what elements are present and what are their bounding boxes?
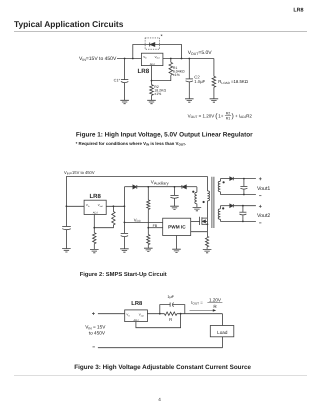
resistor R2 — [151, 81, 153, 85]
junction bypass left — [132, 58, 134, 60]
wire ADJ drop fig2 — [93, 215, 95, 228]
svg-text:R: R — [169, 317, 172, 322]
svg-text:R2: R2 — [226, 112, 231, 116]
svg-text:LR8: LR8 — [131, 300, 143, 307]
svg-text:PWM IC: PWM IC — [168, 225, 186, 230]
diode rectifier output 1 — [230, 177, 233, 180]
junction Vcc tap — [124, 222, 126, 224]
wire top rail fig2 — [66, 175, 207, 177]
svg-text:Vout: Vout — [139, 313, 144, 318]
junction cap left — [159, 313, 161, 315]
ground below PWM IC — [172, 249, 181, 252]
wire secondary 1 top — [220, 178, 229, 180]
capacitor riser bypass — [121, 232, 128, 234]
svg-text:+ IADJR2: + IADJR2 — [235, 113, 252, 119]
wire load bottom — [222, 337, 224, 348]
svg-text:VOUT = 1.20V: VOUT = 1.20V — [188, 113, 215, 119]
regulator U3 LR8 box — [125, 310, 148, 322]
ground below C2 — [185, 99, 194, 102]
junction ADJ node — [151, 80, 153, 82]
transformer T1 core — [211, 177, 213, 228]
load box — [210, 326, 234, 337]
resistor FB lower — [147, 235, 150, 245]
wire output rail — [163, 58, 214, 60]
svg-text:*: * — [161, 34, 164, 40]
ground below R2 — [147, 100, 156, 103]
wire secondary 1 bottom — [220, 194, 256, 196]
terminal minus input — [93, 346, 95, 348]
svg-text:Vout2: Vout2 — [257, 213, 270, 219]
phase dot secondary 1 — [223, 181, 225, 183]
wire return — [98, 347, 223, 349]
diode rectifier output 2 — [230, 204, 233, 207]
svg-text:ADJ: ADJ — [134, 319, 140, 322]
svg-text:): ) — [232, 113, 234, 120]
svg-text:IOUT =: IOUT = — [191, 300, 203, 306]
svg-text:LR8: LR8 — [90, 193, 102, 200]
dashed box optional diode — [145, 38, 160, 49]
svg-text:Vin: Vin — [126, 313, 130, 318]
junction output 1 cap bottom — [243, 194, 245, 196]
regulator U2 LR8 box — [84, 200, 106, 214]
phase dot primary — [203, 201, 205, 203]
junction FB node — [147, 227, 149, 229]
terminal minus output 2 — [259, 222, 261, 224]
svg-text:LR8: LR8 — [138, 68, 150, 75]
svg-text:ADJ: ADJ — [93, 212, 99, 215]
capacitor output 1 — [243, 179, 245, 187]
svg-text:VIN=15V to 450V: VIN=15V to 450V — [64, 170, 95, 176]
wire output — [147, 313, 164, 315]
wire drain-source vertical — [206, 201, 208, 236]
resistor FB upper — [147, 187, 149, 200]
wire input — [98, 313, 125, 315]
svg-text:VAuxiliary: VAuxiliary — [151, 179, 169, 185]
ground below C1 — [120, 100, 129, 103]
svg-text:Figure 2: SMPS Start-Up Circui: Figure 2: SMPS Start-Up Circuit — [80, 271, 167, 278]
junction C1 — [124, 58, 126, 60]
svg-text:Figure 3: High Voltage Adjusta: Figure 3: High Voltage Adjustable Consta… — [74, 364, 251, 371]
svg-text:4: 4 — [158, 397, 161, 402]
capacitor output 2 — [242, 206, 244, 212]
svg-text:R: R — [213, 304, 217, 309]
wire ADJ drop — [151, 66, 153, 81]
transformer primary winding — [206, 176, 208, 191]
wire Vaux mid — [137, 186, 182, 188]
svg-text:* Required for conditions wher: * Required for conditions where VIN is l… — [76, 141, 187, 147]
svg-text:Vin: Vin — [86, 203, 90, 208]
terminal plus input — [92, 312, 95, 315]
junction C2 — [188, 58, 190, 60]
wire ADJ to R1 bottom — [152, 75, 171, 80]
ground below sense resistor — [203, 249, 212, 252]
resistor R2 fig2 — [93, 228, 95, 233]
svg-text:VIN=15V to 450V: VIN=15V to 450V — [79, 56, 117, 62]
wire current sense to PWM — [191, 231, 208, 233]
transformer secondary 1 winding — [219, 179, 221, 182]
capacitor C2 — [188, 59, 190, 80]
svg-text:Vin: Vin — [143, 55, 147, 60]
phase dot secondary 2 — [222, 207, 224, 209]
diode startup feed — [133, 185, 137, 189]
wire diode bypass loop — [133, 45, 182, 59]
svg-text:Vout: Vout — [98, 203, 103, 208]
capacitor C1 — [124, 59, 126, 80]
junction Vaux cap — [174, 186, 176, 188]
junction output 2 cap bottom — [242, 221, 244, 223]
wire output right — [177, 313, 223, 315]
wire riser Vout to Vaux/Vcc — [123, 187, 125, 233]
svg-text:1μF: 1μF — [167, 295, 174, 299]
header rule — [14, 30, 307, 32]
capacitor Vaux — [174, 187, 176, 195]
svg-text:VOUT=5.0V: VOUT=5.0V — [188, 50, 213, 56]
diode aux rectifier — [181, 185, 183, 189]
resistor R — [164, 312, 177, 315]
junction bypass right — [181, 58, 183, 60]
footer rule — [14, 375, 307, 377]
svg-text:C1*: C1* — [114, 78, 121, 82]
controller PWM IC box — [163, 218, 191, 235]
terminal plus output 1 — [259, 177, 262, 180]
svg-text:ADJ: ADJ — [150, 63, 156, 66]
transistor Q1 MOSFET — [199, 217, 201, 225]
wire Vcc line — [124, 221, 162, 223]
wire input rail — [117, 58, 141, 60]
arrow current direction — [190, 309, 214, 311]
resistor sense — [206, 236, 209, 247]
svg-text:VIN = 15V: VIN = 15V — [85, 325, 106, 331]
junction ADJ node fig2 — [93, 227, 95, 229]
ground below FB divider — [144, 248, 153, 251]
svg-text:1.0μF: 1.0μF — [194, 79, 205, 84]
ground below input cap — [62, 249, 71, 252]
svg-text:FB: FB — [153, 224, 158, 228]
svg-text:Load: Load — [217, 330, 228, 335]
diode D1 (protection) — [150, 43, 155, 47]
transformer secondary 2 winding — [219, 206, 221, 209]
wire PWM ground pin — [176, 236, 178, 250]
resistor R1 fig2 — [112, 206, 114, 211]
phase dot auxiliary — [192, 191, 194, 193]
svg-text:±1%: ±1% — [154, 92, 161, 96]
ground below aux winding — [193, 207, 202, 210]
junction source node — [207, 223, 209, 225]
junction riser node — [124, 205, 126, 207]
junction R1 top — [170, 58, 172, 60]
svg-text:Vout1: Vout1 — [257, 186, 270, 192]
ground below Vaux cap — [170, 206, 179, 209]
junction ADJ return — [180, 313, 182, 315]
ground below R2 fig2 — [90, 249, 99, 252]
wire secondary 2 top — [220, 205, 229, 207]
svg-text:LR8: LR8 — [293, 7, 303, 13]
junction output 1 cap top — [243, 178, 245, 180]
junction R1 top fig2 — [113, 205, 115, 207]
wire to LR8 Vin — [66, 205, 84, 207]
junction output 2 cap top — [242, 205, 244, 207]
svg-text:Vout: Vout — [155, 55, 160, 60]
junction input node — [66, 205, 68, 207]
wire secondary 2 bottom — [220, 220, 256, 222]
svg-text:RLOAD =18.5KΩ: RLOAD =18.5KΩ — [218, 79, 248, 85]
svg-text:Typical Application Circuits: Typical Application Circuits — [14, 19, 124, 29]
terminal plus output 2 — [259, 205, 262, 208]
ground below RLOAD — [210, 99, 219, 102]
regulator U1 LR8 box — [141, 53, 163, 65]
wire Vaux right — [186, 186, 197, 188]
svg-text:±1%: ±1% — [173, 73, 180, 77]
wire FB to PWM — [148, 227, 162, 229]
wire ADJ loop — [136, 314, 181, 328]
resistor R1 — [170, 59, 172, 63]
wire to load — [222, 314, 224, 326]
wire LR8 Vout — [106, 205, 124, 207]
junction FB divider top — [147, 186, 149, 188]
ground below riser cap — [120, 249, 129, 252]
capacitor 1uF branch — [160, 305, 170, 314]
resistor RLOAD — [213, 59, 215, 77]
capacitor input C — [62, 226, 71, 228]
wire left drop — [65, 176, 67, 226]
wire gate drive — [191, 220, 200, 222]
svg-text:1.20V: 1.20V — [209, 297, 222, 302]
svg-text:1+: 1+ — [218, 113, 224, 118]
svg-text:Figure 1: High Input Voltage,: Figure 1: High Input Voltage, 5.0V Outpu… — [76, 132, 253, 139]
wire Vaux line — [124, 186, 132, 188]
terminal minus output 1 — [259, 195, 261, 197]
svg-text:R1: R1 — [226, 117, 231, 121]
svg-text:to 450V: to 450V — [89, 331, 106, 336]
transformer auxiliary winding — [196, 187, 198, 192]
